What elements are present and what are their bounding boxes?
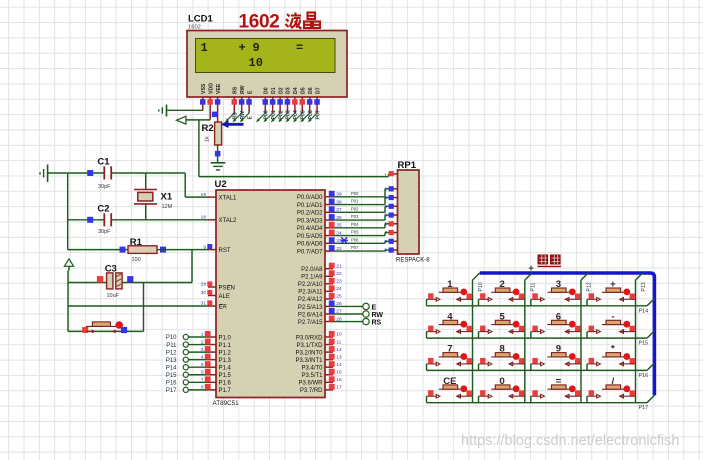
- U2 pin 28 P2.7/A15: [298, 316, 342, 326]
- reset push button: [82, 321, 127, 333]
- svg-text:D4: D4: [293, 87, 299, 94]
- svg-text:P14: P14: [639, 308, 649, 314]
- svg-text:12: 12: [336, 347, 342, 353]
- svg-text:P0.4/AD4: P0.4/AD4: [297, 226, 323, 232]
- svg-text:30pF: 30pF: [98, 229, 111, 235]
- svg-text:P1.2: P1.2: [219, 350, 232, 356]
- net label P05 on LCD pin: [293, 110, 307, 122]
- net label P01 on LCD pin: [263, 110, 277, 122]
- push button 5: [479, 311, 525, 333]
- U2 pin 33 P0.6/AD6: [297, 237, 342, 247]
- push button 0: [479, 376, 525, 398]
- svg-text:VDD: VDD: [208, 83, 214, 94]
- push button 3: [531, 279, 581, 301]
- svg-text:VEE: VEE: [216, 83, 222, 94]
- svg-text:P07: P07: [351, 245, 359, 250]
- svg-text:P06: P06: [308, 110, 314, 119]
- svg-text:LCD1: LCD1: [188, 14, 214, 25]
- svg-text:5: 5: [384, 213, 387, 219]
- RP1 pin 8: [384, 239, 397, 245]
- svg-text:RS: RS: [233, 112, 239, 120]
- svg-text:D7: D7: [315, 87, 321, 94]
- svg-text:P0.1/AD1: P0.1/AD1: [297, 203, 323, 209]
- svg-text:RS: RS: [372, 320, 382, 327]
- handle square C2: [87, 217, 93, 223]
- svg-text:P10: P10: [166, 335, 177, 341]
- svg-text:P11: P11: [166, 343, 177, 349]
- RP1 pin 2: [384, 186, 397, 192]
- svg-text:10: 10: [249, 56, 263, 70]
- keypad column wire P13: [636, 273, 648, 403]
- svg-text:P16: P16: [639, 373, 649, 379]
- LCD pin 13 D6: [307, 87, 314, 113]
- svg-text:P2.6/A14: P2.6/A14: [298, 312, 323, 318]
- push button 1: [427, 279, 473, 301]
- wire R2 to ground: [217, 145, 219, 163]
- svg-text:P3.2/INT0: P3.2/INT0: [295, 350, 323, 356]
- svg-text:P1.1: P1.1: [219, 343, 232, 349]
- LCD pin 5 RW: [239, 85, 246, 113]
- svg-text:P0.7/AD7: P0.7/AD7: [297, 249, 323, 255]
- wire C3 net down to reset button: [143, 283, 145, 332]
- svg-text:P3.1/TXD: P3.1/TXD: [296, 343, 323, 349]
- U2 pin 23 P2.2/A10: [298, 278, 342, 288]
- ground symbol under R2: [211, 163, 226, 170]
- U2 pin 19 XTAL1: [201, 192, 237, 202]
- push button +: [587, 279, 636, 301]
- svg-text:P2.2/A10: P2.2/A10: [298, 282, 323, 288]
- svg-text:https://blog.csdn.net/electron: https://blog.csdn.net/electronicfish: [461, 433, 679, 449]
- bus junction cross marker: [529, 266, 534, 271]
- svg-text:P12: P12: [166, 350, 177, 356]
- svg-text:22: 22: [336, 271, 342, 277]
- svg-text:E: E: [372, 304, 377, 311]
- svg-text:+: +: [239, 41, 246, 55]
- wire button 4 to row: [426, 332, 428, 339]
- RP1 pin 5: [384, 212, 397, 218]
- LCD pin 11 D4: [292, 87, 299, 113]
- RP1 pin 1: [384, 171, 397, 178]
- keypad row wire P14: [427, 299, 655, 315]
- svg-text:1: 1: [201, 332, 204, 338]
- svg-text:P0.5/AD5: P0.5/AD5: [297, 234, 323, 240]
- push button 7: [427, 344, 473, 366]
- svg-text:P15: P15: [639, 341, 649, 347]
- wire P0.1 to RP1 pin 3: [333, 198, 391, 205]
- svg-text:E: E: [247, 90, 253, 94]
- U2 pin 29 PSEN: [201, 281, 235, 291]
- svg-text:RS: RS: [233, 86, 239, 94]
- ground rail vertical: [67, 173, 69, 250]
- svg-text:11: 11: [336, 339, 341, 345]
- svg-text:P2.4/A12: P2.4/A12: [298, 297, 323, 303]
- wire P0.4 to RP1 pin 6: [333, 224, 391, 228]
- svg-text:ALE: ALE: [219, 294, 230, 300]
- svg-text:30: 30: [201, 290, 207, 296]
- svg-text:2: 2: [384, 186, 387, 192]
- svg-text:P3.0/RXD: P3.0/RXD: [296, 335, 323, 341]
- push button CE: [427, 376, 473, 398]
- svg-text:P01: P01: [271, 110, 277, 119]
- svg-text:P16: P16: [166, 381, 177, 387]
- U2 pin 5 P1.4 with terminal P14: [166, 361, 232, 371]
- wire ground to rail: [48, 172, 68, 174]
- svg-text:1602: 1602: [188, 25, 201, 31]
- resistor R2: [202, 122, 222, 145]
- push button *: [587, 344, 636, 366]
- U2 pin 14 P3.4/T0: [301, 361, 341, 371]
- U2 pin 17 P3.7/RD: [300, 384, 342, 394]
- handle squares R1: [120, 247, 167, 253]
- svg-text:P04: P04: [351, 222, 359, 227]
- wire button 2 to row: [478, 299, 480, 306]
- ground symbol for LCD VSS: [159, 105, 167, 117]
- svg-text:1: 1: [201, 41, 208, 55]
- svg-text:P00: P00: [264, 110, 270, 119]
- U2 pin 9 RST: [203, 244, 231, 254]
- svg-text:VSS: VSS: [201, 83, 207, 94]
- LCD pin 10 D3: [285, 87, 292, 113]
- wire to RP1 pin 1: [199, 174, 391, 177]
- wire button 5 to row: [478, 332, 480, 339]
- U2 pin 32 P0.7/AD7: [297, 245, 342, 255]
- svg-text:D1: D1: [271, 87, 277, 94]
- svg-text:P2.7/A15: P2.7/A15: [298, 320, 323, 326]
- svg-text:RW: RW: [240, 85, 246, 94]
- LCD pin 12 D5: [300, 87, 307, 113]
- wire P0.5 to RP1 pin 7: [333, 233, 391, 236]
- svg-text:E: E: [247, 116, 253, 120]
- svg-text:P04: P04: [293, 110, 299, 119]
- svg-text:P01: P01: [351, 199, 359, 204]
- net label RS on LCD pin: [225, 112, 239, 123]
- U2 pin 21 P2.0/A8: [301, 263, 342, 273]
- svg-text:P2.3/A11: P2.3/A11: [298, 290, 323, 296]
- svg-text:6: 6: [384, 221, 387, 227]
- svg-text:P0.3/AD3: P0.3/AD3: [297, 218, 323, 224]
- net label P07 on LCD pin: [308, 110, 322, 122]
- net label P06 on LCD pin: [300, 110, 314, 122]
- keypad row wire P17: [427, 396, 655, 412]
- net label P02 on LCD pin: [271, 110, 285, 122]
- push button -: [587, 311, 636, 333]
- svg-text:10: 10: [336, 332, 342, 338]
- U2 pin 31 EA: [201, 300, 227, 310]
- LCD pin 1 VSS: [200, 83, 207, 110]
- U2 pin 25 P2.4/A12: [298, 293, 342, 303]
- svg-text:18: 18: [201, 215, 207, 221]
- handle square C1: [87, 170, 93, 176]
- wire P0.0 to RP1 pin 2: [333, 189, 391, 197]
- push button 8: [479, 344, 525, 366]
- LCD green screen: [196, 39, 336, 73]
- svg-text:3: 3: [201, 347, 204, 353]
- svg-text:P2.1/A9: P2.1/A9: [301, 275, 323, 281]
- svg-text:C1: C1: [97, 157, 110, 168]
- svg-text:4: 4: [201, 354, 204, 360]
- U2 pin 10 P3.0/RXD: [296, 331, 342, 341]
- net label P03 on LCD pin: [278, 110, 292, 122]
- U2 pin 26 P2.5/A13: [298, 300, 342, 310]
- wire R1 to RST: [157, 249, 209, 251]
- svg-text:P0.6/AD6: P0.6/AD6: [297, 242, 323, 248]
- U2 pin 1 P1.0 with terminal P10: [166, 331, 232, 341]
- svg-text:P03: P03: [286, 110, 292, 119]
- svg-text:25: 25: [336, 294, 342, 300]
- svg-text:P06: P06: [351, 237, 359, 242]
- svg-text:P17: P17: [639, 405, 649, 411]
- U2 pin 11 P3.1/TXD: [296, 339, 341, 349]
- LCD pin 7 D0: [263, 87, 270, 113]
- LCD module LCD1 (LM016L 1602) body: [187, 31, 347, 98]
- push button 4: [427, 311, 473, 333]
- U2 pin 6 P1.5 with terminal P15: [166, 369, 232, 379]
- svg-text:100: 100: [132, 257, 141, 263]
- wire button * to row: [586, 364, 588, 371]
- microcontroller U2 AT89C51 body: [216, 190, 325, 398]
- svg-text:13: 13: [336, 354, 342, 360]
- U2 pin 3 P1.2 with terminal P12: [166, 346, 232, 356]
- svg-text:RW: RW: [372, 312, 384, 319]
- svg-text:C3: C3: [105, 264, 117, 275]
- keypad row wire P16: [427, 363, 655, 379]
- wire button 9 to row: [530, 364, 532, 371]
- svg-text:P03: P03: [351, 214, 359, 219]
- svg-text:RW: RW: [240, 111, 246, 120]
- LCD pin 3 VEE: [215, 83, 222, 122]
- svg-text:P1.5: P1.5: [219, 373, 232, 379]
- svg-text:P13: P13: [166, 358, 177, 364]
- push button 2: [479, 279, 525, 301]
- U2 pin 16 P3.6/WR: [298, 376, 341, 386]
- svg-text:1: 1: [384, 173, 387, 179]
- wire C1 to XTAL1: [111, 173, 209, 197]
- svg-text:P05: P05: [351, 230, 359, 235]
- svg-text:P3.6/WR: P3.6/WR: [298, 381, 323, 387]
- svg-text:P2.5/A13: P2.5/A13: [298, 305, 323, 311]
- wire button 8 to row: [478, 364, 480, 371]
- resistor pack RP1 RESPACK-8 body: [398, 170, 420, 254]
- keypad bus (blue): [480, 273, 655, 395]
- svg-text:P3.4/T0: P3.4/T0: [301, 366, 323, 372]
- svg-text:9: 9: [384, 248, 387, 254]
- wire P0.7 to RP1 pin 9: [333, 250, 391, 251]
- wire button + to row: [586, 299, 588, 306]
- wire VDD vertical to RP1 rail: [198, 120, 200, 177]
- VCC rail vertical: [68, 266, 69, 331]
- wire button 1 to row: [426, 299, 428, 306]
- U2 pin 4 P1.3 with terminal P13: [166, 354, 232, 364]
- wire VCC rail to EA pin: [68, 305, 209, 307]
- wire P0.2 to RP1 pin 4: [333, 206, 391, 212]
- U2 pin 24 P2.3/A11: [298, 285, 342, 295]
- terminal RS from P2.7: [333, 318, 382, 326]
- wire VDD pin to terminal: [186, 119, 210, 121]
- wire C2 to XTAL2: [111, 219, 209, 221]
- svg-text:14: 14: [336, 362, 342, 368]
- svg-text:31: 31: [201, 301, 207, 307]
- svg-text:P0.0/AD0: P0.0/AD0: [297, 195, 323, 201]
- wire button - to row: [586, 332, 588, 339]
- blue tag arrow under LCD RS/RW pins: [221, 121, 244, 128]
- svg-text:P05: P05: [301, 110, 307, 119]
- net label P00 on LCD pin: [256, 110, 270, 122]
- title glyph JING (crystal) - three boxes: [304, 13, 320, 29]
- title glyph YE (liquid): [286, 13, 302, 29]
- svg-text:PSEN: PSEN: [219, 285, 235, 291]
- svg-text:P13: P13: [641, 282, 647, 291]
- svg-text:D6: D6: [308, 87, 314, 94]
- svg-text:16: 16: [336, 377, 342, 383]
- svg-text:AT89C51: AT89C51: [213, 400, 240, 407]
- U2 pin 22 P2.1/A9: [301, 270, 342, 280]
- svg-text:P17: P17: [166, 388, 177, 394]
- keypad column wire P12: [581, 273, 593, 403]
- wire P0.6 to RP1 pin 8: [333, 241, 391, 243]
- power terminal arrow VCC: [64, 259, 73, 267]
- svg-text:P2.0/A8: P2.0/A8: [301, 267, 323, 273]
- svg-text:RESPACK-8: RESPACK-8: [396, 258, 430, 264]
- svg-text:17: 17: [336, 385, 342, 391]
- push button 9: [531, 344, 581, 366]
- svg-text:5: 5: [201, 362, 204, 368]
- U2 pin 8 P1.7 with terminal P17: [166, 384, 232, 394]
- svg-text:P1.3: P1.3: [219, 358, 232, 364]
- svg-text:P3.7/RD: P3.7/RD: [300, 388, 323, 394]
- U2 pin 7 P1.6 with terminal P16: [166, 376, 232, 386]
- net label RW on LCD pin: [232, 111, 246, 122]
- RP1 pin 6: [384, 221, 397, 227]
- svg-text:P10: P10: [478, 282, 484, 291]
- svg-text:P1.4: P1.4: [219, 366, 232, 372]
- LCD pin 6 E: [246, 90, 253, 113]
- svg-text:10uF: 10uF: [107, 293, 120, 299]
- svg-text:1k: 1k: [205, 136, 211, 142]
- svg-text:XTAL1: XTAL1: [219, 195, 238, 201]
- svg-text:2: 2: [201, 339, 204, 345]
- svg-text:X1: X1: [161, 192, 173, 203]
- svg-text:24: 24: [336, 286, 342, 292]
- svg-text:P12: P12: [587, 282, 593, 291]
- U2 pin 12 P3.2/INT0: [295, 346, 341, 356]
- svg-text:15: 15: [336, 369, 342, 375]
- extra state square VEE: [212, 112, 218, 118]
- U2 pin 15 P3.5/T1: [301, 369, 341, 379]
- svg-text:=: =: [296, 41, 303, 55]
- wire button = to row: [530, 396, 532, 403]
- svg-text:1602: 1602: [239, 12, 280, 33]
- svg-text:RP1: RP1: [398, 160, 417, 171]
- push button =: [531, 376, 581, 398]
- svg-text:XTAL2: XTAL2: [219, 218, 238, 224]
- ground symbol far left: [40, 165, 48, 183]
- U2 pin 13 P3.3/INT1: [295, 354, 341, 364]
- svg-text:19: 19: [201, 192, 207, 198]
- svg-text:D2: D2: [278, 87, 284, 94]
- push button 6: [531, 311, 581, 333]
- LCD pin 14 D7: [314, 87, 321, 113]
- svg-text:C2: C2: [97, 204, 109, 215]
- svg-text:4: 4: [384, 204, 387, 210]
- keypad column wire P10: [473, 273, 485, 403]
- wire button CE to row: [426, 396, 428, 403]
- svg-text:P1.0: P1.0: [219, 335, 232, 341]
- crystal X1: [134, 173, 173, 220]
- svg-text:P1.6: P1.6: [219, 381, 232, 387]
- wire button 0 to row: [478, 396, 480, 403]
- LCD screen text line 1: 1 + 9 =: [201, 41, 304, 55]
- blue junction star marker: [341, 237, 348, 243]
- LCD pin 2 VDD: [207, 83, 214, 120]
- wire VSS to ground: [167, 109, 203, 111]
- wire button 6 to row: [530, 332, 532, 339]
- svg-text:D3: D3: [286, 87, 292, 94]
- wire RST down to C3 net: [191, 250, 193, 283]
- U2 pin 39 P0.0/AD0: [297, 191, 342, 201]
- push button /: [587, 376, 636, 398]
- resistor R1: [68, 237, 157, 263]
- svg-text:P14: P14: [166, 365, 177, 371]
- svg-text:7: 7: [384, 230, 387, 236]
- RP1 pin 7: [384, 230, 397, 236]
- keypad title JIANPAN: [538, 255, 562, 267]
- svg-text:P11: P11: [530, 283, 536, 292]
- LCD pin 9 D2: [277, 87, 284, 113]
- svg-text:29: 29: [201, 282, 207, 288]
- svg-text:P3.3/INT1: P3.3/INT1: [295, 358, 323, 364]
- svg-text:30pF: 30pF: [98, 184, 111, 190]
- RP1 pin 9: [384, 247, 397, 253]
- U2 pin 2 P1.1 with terminal P11: [166, 339, 231, 349]
- svg-text:21: 21: [336, 263, 342, 269]
- svg-text:3: 3: [384, 195, 387, 201]
- svg-text:9: 9: [253, 41, 260, 55]
- wire button / to row: [586, 396, 588, 403]
- U2 pin 35 P0.4/AD4: [297, 222, 342, 232]
- svg-text:D5: D5: [301, 87, 307, 94]
- net label E on LCD pin: [240, 113, 254, 122]
- terminal E from P2.5: [333, 303, 377, 311]
- svg-text:D0: D0: [264, 87, 270, 94]
- svg-text:23: 23: [336, 279, 342, 285]
- LCD pin 4 RS: [232, 86, 239, 113]
- capacitor C1: [68, 157, 112, 191]
- net label P04 on LCD pin: [286, 110, 300, 122]
- terminal RW from P2.6: [333, 311, 383, 319]
- svg-text:RST: RST: [219, 248, 231, 254]
- U2 pin 27 P2.6/A14: [298, 308, 342, 318]
- keypad column wire P11: [525, 273, 537, 403]
- LCD pin 8 D1: [270, 87, 277, 113]
- svg-text:6: 6: [201, 369, 204, 375]
- svg-text:P15: P15: [166, 373, 177, 379]
- svg-text:P1.7: P1.7: [219, 388, 232, 394]
- svg-text:7: 7: [201, 377, 204, 383]
- handle squares C3: [97, 276, 133, 282]
- svg-text:R1: R1: [130, 237, 143, 248]
- U2 pin 30 ALE: [201, 290, 230, 300]
- svg-text:P02: P02: [351, 206, 359, 211]
- handle square under R2: [215, 151, 221, 157]
- svg-text:P3.5/T1: P3.5/T1: [301, 373, 323, 379]
- wire button 3 to row: [530, 299, 532, 306]
- svg-text:EA: EA: [219, 304, 227, 310]
- U2 pin 36 P0.3/AD3: [297, 214, 342, 224]
- svg-text:P02: P02: [278, 110, 284, 119]
- wire P0.3 to RP1 pin 5: [333, 215, 391, 220]
- U2 pin 38 P0.1/AD1: [297, 199, 342, 209]
- svg-text:8: 8: [384, 239, 387, 245]
